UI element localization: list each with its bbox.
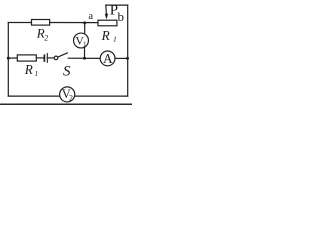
svg-text:b: b bbox=[118, 9, 125, 24]
switch S pivot circle bbox=[54, 56, 58, 60]
wire ammeter to right wire bbox=[115, 57, 128, 59]
wire bottom left segment bbox=[8, 95, 60, 97]
ammeter A circle bbox=[100, 51, 115, 66]
wire bottom right segment bbox=[75, 95, 128, 97]
voltmeter V1 circle bbox=[74, 33, 89, 48]
svg-text:S: S bbox=[63, 64, 71, 80]
wire switch to ammeter bbox=[68, 57, 100, 59]
svg-text:R: R bbox=[24, 62, 33, 77]
svg-text:2: 2 bbox=[44, 34, 48, 43]
svg-text:1: 1 bbox=[83, 40, 87, 48]
wire top horizontal right segment bbox=[50, 22, 98, 24]
wire wiper top horizontal bbox=[106, 4, 128, 6]
wire V1 bottom stub bbox=[84, 47, 86, 58]
svg-text:2: 2 bbox=[69, 93, 73, 102]
battery long plate bbox=[46, 54, 48, 63]
battery short plate bbox=[43, 55, 45, 61]
bottom border rule bbox=[0, 103, 132, 105]
svg-text:A: A bbox=[103, 51, 113, 66]
svg-text:R: R bbox=[101, 28, 110, 43]
svg-text:1: 1 bbox=[113, 35, 117, 44]
rheostat R1 box bbox=[98, 20, 117, 26]
rheostat wiper arrowhead bbox=[105, 14, 109, 20]
rheostat wiper P arrow stem bbox=[105, 5, 108, 14]
voltmeter V2 circle bbox=[60, 87, 75, 102]
switch S lever bbox=[58, 53, 68, 57]
node junction dot ammeter / right wire bbox=[126, 57, 129, 60]
svg-text:a: a bbox=[88, 11, 93, 22]
resistor R2 bbox=[32, 20, 50, 26]
node junction dot top (V1 tap) bbox=[83, 21, 86, 24]
wire battery to switch bbox=[47, 57, 54, 59]
wire V1 top stub bbox=[84, 23, 86, 35]
node junction dot left wire / middle row bbox=[7, 57, 10, 60]
svg-text:1: 1 bbox=[34, 69, 38, 78]
wire right vertical bbox=[127, 5, 129, 96]
wire middle row from left wire bbox=[8, 57, 17, 59]
wire top horizontal left segment bbox=[8, 22, 31, 24]
wire R1 to battery bbox=[36, 57, 44, 59]
resistor R1 bbox=[17, 55, 36, 61]
wire left vertical bbox=[7, 23, 9, 97]
node junction dot middle (V1 bottom) bbox=[83, 57, 86, 60]
